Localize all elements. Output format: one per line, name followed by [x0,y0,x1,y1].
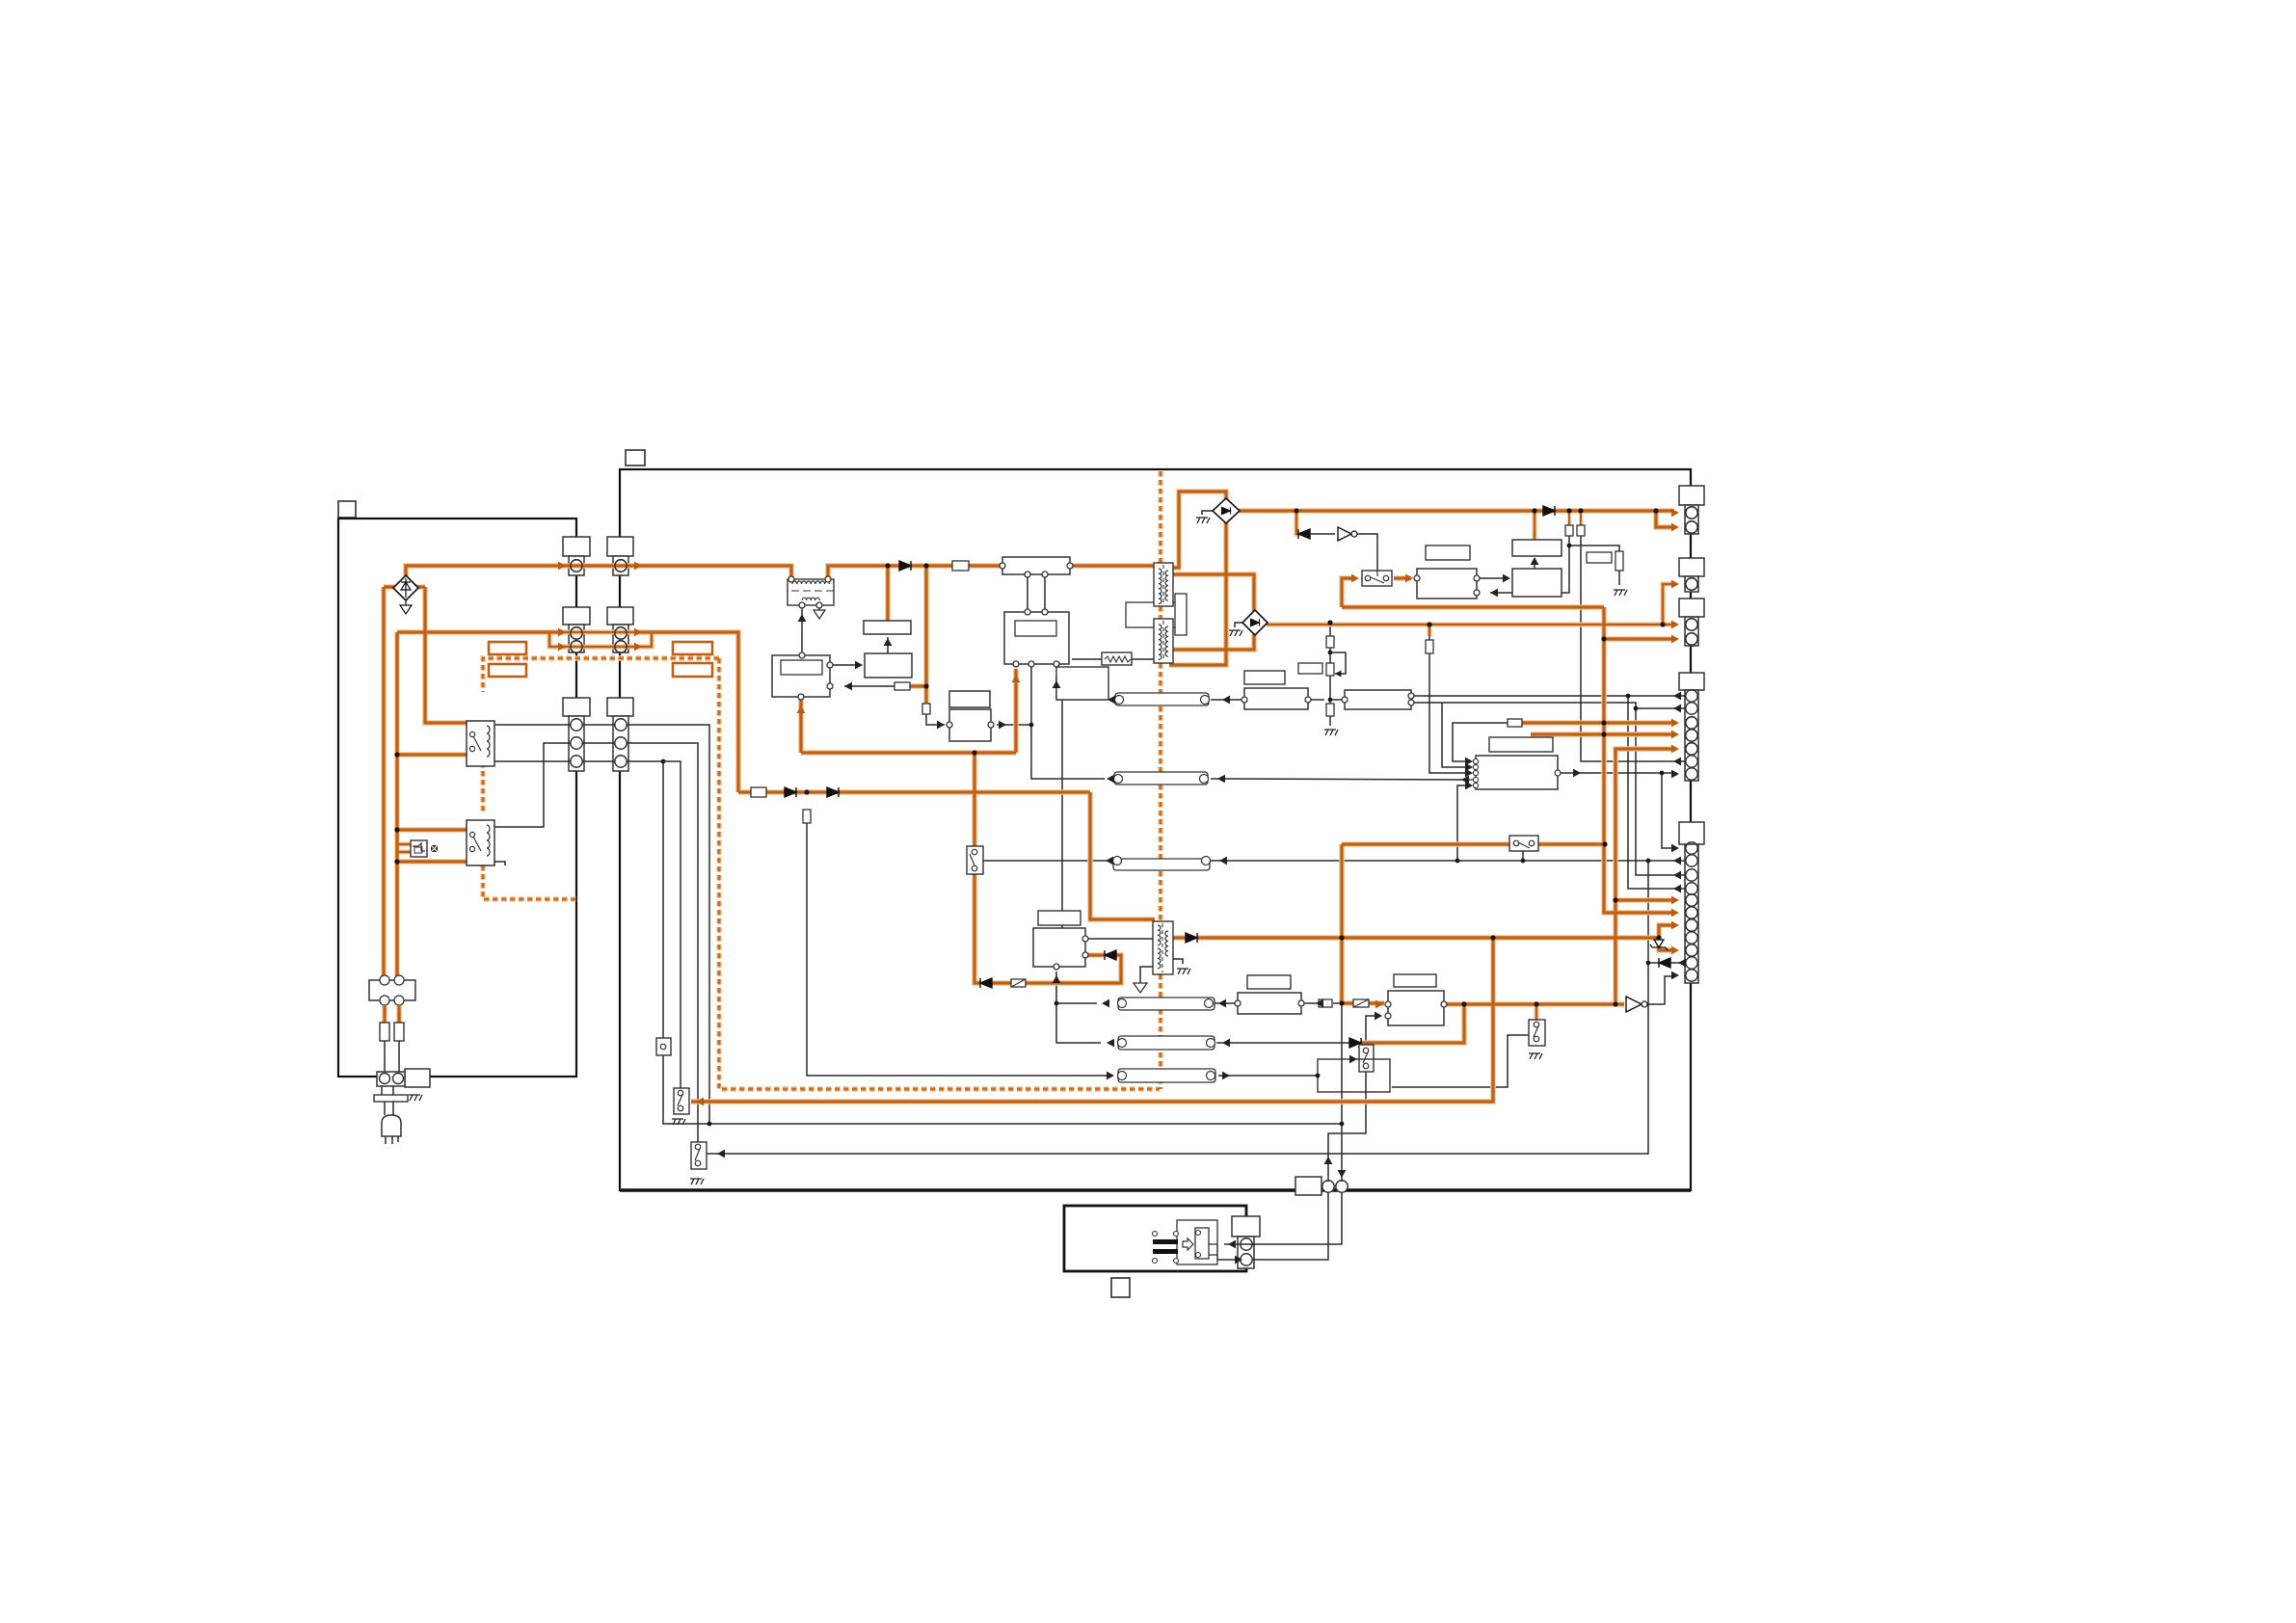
wire grounded switch G stub [1535,1004,1538,1020]
connector bottom edge [1295,1177,1322,1195]
wire ribbon W2 right to IC U6 [1211,779,1473,780]
AC inlet connector [377,1069,430,1087]
AC plug [382,1115,401,1136]
wire T3 right bottom pin to ground [1172,959,1183,964]
left block (power input unit) [338,519,576,1077]
arrow into U3 pin2 [1490,589,1498,598]
module box right of W5 [1318,1059,1390,1092]
arrow into U8 pin2 [1375,1012,1382,1021]
ground switch B [672,1119,685,1125]
arrows into G3 [1671,621,1679,629]
wire relay1 coil bottom to connector P3 row3 [494,760,571,762]
ground strap bar [374,1095,408,1102]
remote unit inner box [1177,1220,1217,1264]
ribbon W5 [1118,1069,1216,1082]
wire P3 row1 to junction y1166 [627,725,709,1124]
bottom block (remote sensor unit) [1064,1206,1246,1271]
diode on y822 second [827,787,839,797]
connector P1 col1 [563,537,590,556]
orange label rect left upper [489,642,526,654]
wire ribbon W3 chain right to block U8 [1211,1002,1235,1004]
arrow down into bottom connector pin2 [1338,1170,1347,1178]
block U1b [865,653,912,678]
wire bus resistor x1628 chain to U3 pin2 [1568,511,1571,525]
wire switched bus y656 to connector P2 [397,630,563,633]
remote receiver element [1195,1228,1209,1259]
resistor x961 vertical [922,704,930,714]
orange label rect right upper [673,642,712,654]
remote IR pins [1153,1232,1158,1237]
arrow remote input [1228,1240,1236,1249]
resistor x1640 on bus [1577,525,1585,536]
ground symbol at strap [409,1095,422,1101]
wire U1 to U1b block [833,664,860,666]
arrows into G1 [1671,509,1679,518]
arrow into G2 [1671,580,1679,589]
wire relay1 coil top to connector P3 row1 [494,724,571,726]
wire branch to switch A [662,761,664,1038]
connector P3 col1 [563,698,590,716]
wire relay2 coil bottom to ground [494,862,505,865]
wire block B pin1 to G4.722 [1413,695,1685,697]
connector G3 [1679,599,1704,617]
wire G4.790 feed from resistor chain x1640 [1581,536,1685,761]
diamond varistor V1 [393,575,418,614]
wire x1640 bus resistor top [1580,511,1583,525]
wire AC live bus y587 from diamond to T0 and filter [406,566,791,578]
switch H [1359,1045,1374,1072]
arrows W2 chain [1107,775,1114,784]
connector P2 col2 [607,607,633,625]
block chain y726 B [1342,690,1414,709]
connector remote unit [1232,1216,1260,1237]
terminal block TB1 [369,975,415,1005]
grounded switch G [1529,1020,1545,1046]
wire T3 left bottom pin to open ground [1140,967,1154,983]
wire feedback into U1 pin y712 [844,685,894,687]
wire standby bus y630 [1342,605,1604,608]
block box2 [1512,569,1562,597]
wire vertical C x1549 to switch B [691,938,1493,1102]
arrow U1b to U1c [884,638,893,646]
transformer T3 [1153,921,1173,974]
aux rect left of transformers [1126,602,1180,627]
block U3 relay driver [1414,569,1480,599]
zener glyph near G5 [1650,940,1668,950]
connector G5 [1679,822,1704,844]
wire y648 fork up to G2 [1663,584,1674,625]
diode T3 output [1186,933,1197,943]
small label box near divider [1298,663,1322,674]
wire crossover down to G5.922 [1628,696,1685,889]
label U5 [1038,911,1081,925]
arrow into T0 secondary [798,614,807,622]
ribbon W4 [1118,1036,1215,1050]
arrow U1 to U1b [855,661,863,670]
connector P2 col1 [563,607,590,625]
wire U5 block right circle to T3 [1088,938,1153,940]
wire y530 into G1 pins [1656,511,1674,527]
wire dashed main vertical x746 [719,658,1160,1089]
wire arrow up into U1 bottom [799,700,802,753]
wire x961 from bus down to feedback [924,566,927,704]
wire diamond D1 bottom to T2 secondary bottom [1169,522,1226,665]
wire switch H riser down jog to bottom connector pin1 [1328,1072,1366,1182]
label box main block [626,450,645,466]
relay K1 [467,721,494,766]
block U4 [947,709,994,741]
arrow switch E to U3 [1405,574,1413,583]
wire vertical A x1664 [1604,607,1674,913]
diode at U5 y991 [1105,950,1116,960]
arrow into switch B orange [696,1098,704,1106]
transformer T0 [788,576,834,608]
wire U5 bottom riser to ribbons W3 W4 [1056,971,1101,1043]
wire y530 branch to buffer diode [1296,511,1299,534]
ribbon W6 [1113,857,1211,871]
wire AC live vertical x441 to relay1 [425,587,467,723]
wire vertical B stub G5.934 [1615,898,1674,901]
connector G2 [1679,558,1704,576]
ground x1680 [1614,590,1627,596]
buffer triangle y1042 [1626,997,1647,1012]
arrow box2 to box1 [1534,558,1535,569]
main block (main board) [620,469,1691,1190]
wire switch A to y1166 line across to riser [663,1055,1342,1124]
wire ribbon W3 chain left [1056,1002,1097,1004]
label block U4a [949,691,990,707]
block box1 [1512,540,1562,556]
block U2 pwm [1004,609,1069,667]
connector P2 circles [571,627,582,639]
wire x921 from bus into U1c [886,566,889,621]
ribbon W1 [1115,693,1210,705]
wire row762 orange [1531,732,1674,735]
wire x1011 down to switch D [973,753,975,846]
resistor x1680 [1615,551,1623,571]
switch C [691,1142,707,1169]
block U1c [864,621,911,634]
diode on y554 cathode left [1298,529,1310,539]
wire diamond D2 left corner to ground [1235,623,1243,627]
filter block FL1 [1000,557,1073,577]
wire relay K3 loop feed [1342,578,1355,607]
label box chain y726 left [1244,671,1285,684]
arrow remote output [1235,1256,1242,1264]
resistor row750 [1508,719,1522,727]
transformer T1 [1154,563,1173,606]
wire ribbon W4 right diode feed [1216,1042,1349,1044]
thermistor RT1 [1102,652,1132,665]
remote inner wires [1209,1244,1217,1260]
block chain y726 A [1241,688,1311,709]
resistor x1483 [1426,640,1433,653]
diode W4 feed [1349,1038,1361,1048]
wire y530 branch into box1 [1534,511,1536,540]
wire U1b up to U1c [887,637,889,653]
ground at D1 [1196,518,1210,523]
ground switch C [690,1179,704,1184]
arrows into G4 orange rows [1671,719,1679,728]
wire diamond D1 left corner to ground [1202,511,1213,515]
wire U3 box4 to box2 [1480,577,1508,579]
resistor W3 chain [1319,999,1332,1007]
wire plug and inlet leads [382,1086,398,1144]
ground at T3 right [1177,969,1190,974]
arrow up into U1b pin1 [1012,675,1021,682]
box X1 [1056,667,1108,700]
arrows W4 chain [1107,1039,1114,1048]
fuse F1 [380,1023,389,1041]
fuse on bus y587 [952,561,969,571]
wire P2 loop right merge [634,632,652,647]
wire U2 pins up to FL1 [1028,577,1045,609]
arrows into IC U6 [1465,758,1473,766]
wire run y876 from riser to vertical A [1342,842,1605,845]
arrow up on pin1 riser [1324,1157,1333,1164]
wire y564 branch to resistor and ground [1569,545,1619,551]
arrows orange P2 rows [558,628,566,637]
wire row750 orange [1521,721,1674,724]
connector G1 [1679,486,1704,505]
wire vertical A branch G3.663 [1604,637,1674,640]
wire switch E to U3 [1394,576,1411,579]
remote IR bars [1153,1239,1178,1244]
wire P2 rows through circles [563,632,634,647]
wire rectified medium bus y648 [1267,624,1674,626]
transformer T2 [1154,619,1173,663]
orange label rect left lower [489,664,526,677]
orange label rect right lower [673,663,712,677]
wire filter output to T1 primary [1072,564,1155,567]
switch E [1362,571,1392,586]
wire IC U6 pin2 feed [1442,703,1469,767]
junction dots black nets [661,544,1665,1127]
wire block U8 output chain y1042 to buffer [1444,1002,1624,1005]
diode on bus y587 [899,561,911,571]
arrows G4 black rows [1673,692,1681,701]
wire T0 secondary to U1 [801,607,803,652]
connector P1 col2 [607,537,633,556]
wire divider chain x1380 [1329,625,1331,636]
connector P3 circles [571,719,582,731]
aux rect right of transformers [1175,594,1187,635]
resistor x1628 on bus [1565,525,1573,536]
open ground triangle at T3 [1134,983,1147,993]
wire chain y822 fuse and diodes to x1131 [738,790,1090,793]
wire IC U6 pin1 feed and row750 resistor [1453,723,1508,761]
wire x961 resistor bottom to U4 left pin [926,714,945,725]
wire T0 secondary right pin to ground triangle [818,607,820,610]
arrows W3 chain [1102,999,1109,1008]
arrows W6 chain [1106,857,1113,865]
wire IC U6 output to connectors [1561,772,1673,774]
wire standby net x837 down to ribbon W5 [807,823,1108,1076]
wire rectified bus y530 [1239,509,1656,512]
divider pot resistor [1326,663,1334,676]
wire crossover down to G5.908 [1636,708,1685,875]
arrow into U4 left [937,721,945,730]
block U5 [1033,928,1088,970]
arrow up into U1 bottom [797,705,806,713]
wire buffer chain y554 [1309,533,1335,535]
pot wiper arrow [1335,670,1341,677]
open ground triangle under T0 [814,610,825,619]
relay K2 [467,820,494,865]
wire riser x1392 orange part to chain [1340,938,1343,1003]
diode row999 [1659,958,1670,968]
diagonal box W3 chain [1353,999,1369,1007]
orange glow layer [384,471,1674,1102]
junction dots orange nets [394,508,1665,1006]
wire block U4 out via junction up to U2 pin2 and right to ribbon W2 [997,664,1031,725]
wire AC neutral vertical x398 [382,587,385,976]
divider resistor 1 [1326,636,1334,648]
wire AC pair y609 behind diamond [384,585,425,588]
wire box X1 to block U5 [1061,700,1063,928]
arrow into U1 feedback pin [844,682,852,691]
wire G5.999 diode line [1670,962,1685,964]
diode on y822 first [785,787,796,797]
arrow into switch E [1351,574,1359,583]
label U7 [1247,975,1291,989]
arrows orange bus P1 [558,562,566,571]
arrows W1 chain [1108,696,1115,705]
arrows G5 rows [1671,844,1679,853]
wire ribbon W5 right to module box [1218,1075,1318,1077]
fuse on y822 [751,787,766,797]
wire bottom connector pin1 down to remote output [1253,1192,1328,1260]
switch B [674,1088,689,1114]
wire bus y656 to corner x766 [634,632,738,792]
ground switch G [1529,1053,1542,1059]
switch F [1509,836,1538,851]
divider resistor 3 [1326,704,1334,716]
wire y648 stub to resistor x1483 [1428,625,1431,636]
wire orange stub into feedback resistor [910,684,926,687]
wire dashed interlock relay chain [483,658,719,899]
small label box y582 [1587,552,1612,563]
wire switched live x412 taps [395,632,398,976]
wire dashed isolation line x1204 lower [1160,974,1162,1089]
fuse F2 [394,1023,404,1041]
connector P3 col2 [607,698,633,716]
label box3 [1426,545,1470,560]
wire riser x1392 down to bottom connector pin2 [1341,1003,1343,1182]
ground divider [1324,730,1338,735]
wire T1 secondary top to diamond D1 [1169,492,1226,568]
remote block arrow [1183,1238,1193,1250]
wire remote unit output to its connector [1217,1259,1238,1261]
wire P3 row2 to switch C [627,743,698,1142]
wire resistor x1483 drop [1428,625,1430,640]
main block bottom edge thick [620,1188,1691,1191]
arrow out U4 right [999,721,1006,730]
arrow after IC U6 [1573,769,1581,778]
block U7 on W3 chain [1235,993,1304,1014]
wire switch C to right riser y1197 [706,862,1648,1154]
IC U6 [1473,756,1561,789]
switch D [967,846,983,874]
wire IC U6 pin5 feed [1457,785,1469,861]
ribbon W2 [1114,772,1209,785]
wire switch F drop to y893 [1522,851,1524,861]
arrow U3 to box2 [1503,574,1510,583]
buffer triangle y554 [1338,527,1357,541]
wire block B pin2 to G4.735 [1413,703,1685,708]
wire dashed isolation line x1204 upper [1160,471,1162,921]
wire chain y1042 orange segments [1342,1001,1384,1004]
wire P2 loop left [549,632,565,647]
switch A [656,1038,671,1055]
wire bottom connector pin2 down to remote input [1224,1192,1342,1244]
ground at D2 [1229,630,1242,636]
wire switch D bottom to y1020 run [974,874,980,983]
wire thermistor line to T2 [1072,658,1102,660]
wire y973 fork to G5.960 and G5.986 [1659,925,1674,950]
wire divider to chain y726 [1311,699,1324,701]
arrows W5 chain [1107,1072,1114,1080]
wire grounded switch G to module box [1392,1035,1529,1087]
bridge diamond D2 [1242,610,1268,635]
wire x1131 down and into T3 [1090,792,1155,919]
label box left block [338,501,356,518]
wire y1087 orange to riser x1519 [1361,1004,1464,1043]
bridge diamond D1 [1213,498,1240,523]
arrow into switch C line [717,1150,725,1158]
diode on y1020 [980,978,992,988]
wire fuses to inlet [385,1041,399,1073]
wire ribbon W1 right chain [1211,699,1241,701]
wire switch H top to U8 pin2 [1366,1016,1378,1045]
IC U1 start/control [772,652,833,700]
wire main bus y781 [801,751,1016,754]
wire long feedback y893 from switch D to connector G5 [982,860,1117,862]
surge component small box [411,840,438,857]
wire riser x1392 supply [1340,844,1343,938]
resistor feedback y712 [894,682,910,690]
wire x1054 up into U1b pin1 [1014,669,1017,753]
wire buffer output to G5.1012 [1646,976,1673,1004]
wire terminal to fuses orange [385,1005,399,1023]
wire T3 output bus y973 [1172,936,1659,939]
connector G4 [1679,673,1704,690]
label box bottom block [1111,1278,1130,1297]
wire relay2 coil top to connector P3 row2 [494,743,571,827]
resistor x837 under junction [803,810,811,823]
arrow up into U5 bottom [1053,975,1061,983]
wire P3 row3 to switch B top [627,761,681,1088]
label U8 [1394,974,1436,987]
wire vertical B x1676 [1615,749,1674,1004]
connector P1 circles [571,560,582,572]
ribbon W3 [1118,998,1215,1010]
wire secondary loop T1 to diamond D2 to T2 [1169,574,1254,650]
diode on bus y530 [1543,506,1555,516]
label above IC U6 [1489,737,1553,752]
wire ribbon W1 left to U2 pin3 [1056,675,1106,700]
connector circle overlays above orange wires [571,507,1697,956]
diagonal box on y1020 [1011,979,1026,987]
wire P3 rows between columns [582,725,615,761]
block U8 [1385,991,1447,1025]
arrow into switch H [1349,1055,1357,1064]
